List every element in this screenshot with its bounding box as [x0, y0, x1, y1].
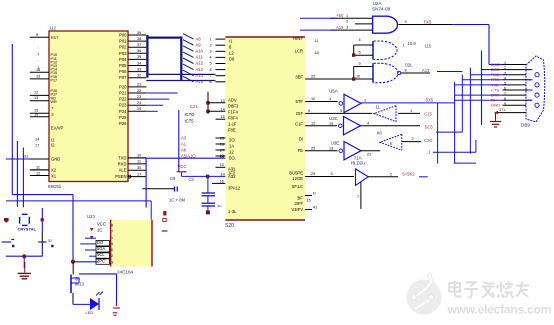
svg-text:A6: A6: [181, 147, 187, 152]
svg-text:RST: RST: [51, 36, 59, 40]
svg-text:11: 11: [315, 39, 319, 43]
IC U1 PSEN bubble: [128, 175, 131, 178]
wire left v4: [22, 148, 24, 208]
DB9 gnd row: [496, 112, 527, 114]
svg-text:P24: P24: [119, 109, 127, 114]
svg-text:17: 17: [35, 144, 39, 148]
svg-text:8: 8: [504, 97, 506, 101]
svg-text:1: 1: [210, 37, 212, 41]
component R1 lead: [162, 230, 168, 232]
svg-text:5+5K2: 5+5K2: [402, 171, 415, 176]
svg-text:P02: P02: [119, 45, 127, 50]
svg-text:U2A: U2A: [373, 1, 383, 6]
svg-text:10: 10: [356, 75, 360, 79]
junction dot g2: [352, 77, 355, 80]
svg-text:32: 32: [137, 74, 141, 78]
svg-text:A3: A3: [181, 135, 187, 140]
bus entry diagonals: [183, 34, 194, 40]
svg-text:U23: U23: [87, 214, 96, 219]
svg-text:4: 4: [210, 56, 212, 60]
LED D1: [90, 298, 99, 310]
buffer U3B: [374, 106, 396, 122]
svg-text:Q1: Q1: [75, 276, 81, 281]
svg-text:15: 15: [307, 199, 311, 203]
svg-text:U5A: U5A: [329, 89, 338, 94]
svg-text:5: 5: [340, 109, 342, 113]
svg-text:VCC: VCC: [178, 164, 187, 169]
svg-text:FE: FE: [298, 148, 304, 153]
svg-text:DI: DI: [299, 137, 303, 142]
svg-text:X1: X1: [51, 173, 57, 178]
svg-text:X2: X2: [51, 168, 57, 173]
svg-text:12OE: 12OE: [292, 176, 303, 181]
svg-text:A14: A14: [196, 73, 204, 78]
svg-text:34: 34: [137, 61, 141, 65]
svg-text:E: E: [390, 142, 393, 146]
wire db9 feed6: [455, 94, 503, 96]
wire left row169: [30, 169, 49, 171]
wire harness bottoms: [454, 162, 476, 164]
gate U2A output wire: [399, 24, 453, 26]
junction dot Q: [71, 260, 75, 264]
svg-text:19: 19: [36, 75, 40, 79]
IC U3 border left: [110, 220, 112, 267]
wire v x151: [150, 201, 152, 220]
svg-text:24C164: 24C164: [117, 270, 134, 275]
svg-text:A15: A15: [196, 79, 204, 84]
svg-text:3: 3: [346, 26, 348, 30]
wire P06 direct: [146, 73, 215, 75]
svg-text:13: 13: [220, 154, 224, 158]
wire mid vertical: [178, 110, 180, 172]
svg-text:HLD2U: HLD2U: [351, 161, 365, 166]
svg-text:43: 43: [315, 51, 319, 55]
IC2 stub row167: [216, 166, 226, 168]
svg-text:10: 10: [311, 97, 315, 101]
svg-text:2: 2: [412, 137, 414, 141]
junction dot rail: [22, 254, 26, 258]
capacitor C6 lead: [142, 188, 174, 190]
svg-text:33: 33: [137, 67, 141, 71]
svg-text:37: 37: [137, 43, 141, 47]
wire db9 feed3: [470, 74, 502, 76]
wire left v2: [11, 44, 13, 195]
svg-text:41: 41: [313, 206, 317, 210]
wire xtal v top: [41, 208, 43, 233]
wire db9 feed2: [482, 69, 503, 71]
crystal Y1 top plate: [22, 213, 28, 215]
svg-text:5X5: 5X5: [426, 98, 434, 103]
svg-text::: :: [38, 59, 39, 63]
svg-text:29: 29: [311, 172, 315, 176]
svg-text:13: 13: [221, 99, 225, 103]
svg-text:L: L: [403, 43, 406, 48]
svg-text:10: 10: [137, 154, 141, 158]
svg-text:14: 14: [35, 138, 39, 142]
ground DB9: [495, 113, 497, 121]
svg-text:30: 30: [48, 239, 52, 243]
junction dot VCC: [206, 175, 209, 178]
svg-text:3: 3: [504, 71, 506, 75]
VCC arrows: [90, 228, 94, 231]
buffer U4 out: [368, 176, 398, 178]
svg-text:35: 35: [137, 55, 141, 59]
wire VCC to IC2: [182, 175, 226, 177]
IC2 stub row183: [212, 182, 225, 184]
connector DB9: [526, 56, 545, 122]
svg-text:U2: U2: [50, 26, 56, 31]
svg-text:U3E: U3E: [331, 141, 340, 146]
svg-text:5F.1C: 5F.1C: [292, 184, 303, 189]
svg-text:RXD: RXD: [118, 161, 127, 166]
svg-text:LCR: LCR: [295, 49, 303, 54]
svg-text:21: 21: [367, 153, 371, 157]
svg-text:P00: P00: [119, 33, 127, 38]
svg-text:C6: C6: [170, 176, 176, 181]
svg-text:SN74-08: SN74-08: [372, 7, 391, 12]
svg-text:F8E: F8E: [228, 128, 236, 133]
svg-text:22: 22: [137, 89, 141, 93]
svg-text:P01: P01: [119, 39, 127, 44]
svg-text:5TL: 5TL: [499, 107, 507, 112]
svg-text:23: 23: [137, 95, 141, 99]
buffer U3D: [380, 134, 402, 150]
svg-text:C3: C3: [188, 177, 194, 182]
IC U2 body: [225, 37, 305, 220]
svg-text:89C51: 89C51: [48, 184, 62, 189]
wire R pullup: [79, 273, 117, 275]
wire A8 stub: [146, 92, 177, 94]
svg-text:5: 5: [504, 82, 506, 86]
svg-text:5TF: 5TF: [296, 99, 304, 104]
svg-text:12: 12: [229, 150, 234, 155]
svg-text:6: 6: [504, 87, 506, 91]
svg-text:14: 14: [221, 172, 225, 176]
wire A11 stub: [146, 110, 157, 112]
svg-text:3IF: 3IF: [297, 196, 303, 201]
junction dot g1: [352, 53, 355, 56]
buffer U3B in wire: [305, 112, 372, 114]
svg-text:A9: A9: [196, 42, 202, 47]
AND gate U2C arc: [374, 63, 398, 82]
svg-text:2: 2: [390, 172, 392, 176]
wire Q base: [73, 261, 98, 263]
svg-text:C15: C15: [424, 111, 432, 116]
wire harness v0: [437, 103, 439, 164]
svg-text:11: 11: [376, 105, 381, 110]
buffer U3E out: [361, 150, 380, 152]
IC U1 right bottom stubs: [128, 157, 146, 159]
capacitor C2: [38, 241, 46, 243]
wire v x146: [145, 158, 147, 207]
svg-text:11: 11: [36, 166, 40, 170]
gate U2A input wires blue: [300, 17, 336, 19]
svg-text:F8F4: F8F4: [228, 116, 238, 121]
IC U1 right pin stubs P2: [128, 86, 146, 88]
IC2 stub mid2: [208, 110, 225, 112]
component R1 body: [163, 211, 166, 215]
svg-text:F1F4: F1F4: [228, 110, 238, 115]
svg-text:31: 31: [24, 155, 28, 159]
buffer U3E: [339, 149, 343, 153]
svg-text:1: 1: [38, 66, 40, 70]
wire db9 feed5: [455, 84, 503, 86]
IC U1 right pin stubs P0: [128, 34, 146, 36]
gate U2C in wire: [305, 78, 373, 80]
svg-text:02L: 02L: [405, 62, 413, 67]
VCC bar: [177, 171, 187, 173]
gate U2A out blue: [452, 24, 489, 26]
wire db9 feed4: [462, 79, 502, 81]
svg-text:EA/VP: EA/VP: [51, 126, 64, 131]
svg-text:A13: A13: [422, 68, 430, 73]
svg-text:16: 16: [220, 179, 224, 183]
IC2 stub mid1: [208, 102, 225, 104]
svg-text:7: 7: [504, 92, 506, 96]
svg-text:1A: 1A: [229, 144, 234, 149]
wire A10 stub: [146, 104, 163, 106]
svg-text:5: 5: [210, 62, 212, 66]
svg-text:36: 36: [137, 49, 141, 53]
buffer U3E in: [305, 150, 338, 152]
svg-text:3: 3: [405, 20, 407, 24]
svg-text:A11: A11: [196, 55, 204, 60]
buffer U3A out wire: [361, 102, 455, 104]
svg-text:ALE: ALE: [119, 168, 127, 173]
IC U1 89C51 body: [49, 31, 128, 182]
svg-text:D8: D8: [229, 57, 235, 62]
net marker diamond: [4, 218, 9, 223]
svg-text:12: 12: [311, 121, 315, 125]
svg-text:1: 1: [346, 14, 348, 18]
AND gate U2B arc: [374, 41, 397, 60]
buffer U3A in: [305, 101, 338, 103]
svg-text:BU5PE: BU5PE: [289, 171, 303, 176]
buffer U4 out blue: [419, 176, 428, 178]
svg-text:9: 9: [36, 33, 38, 37]
svg-text:5: 5: [111, 242, 113, 246]
svg-text:25: 25: [311, 146, 315, 150]
AND gate U2B left edge: [372, 41, 374, 60]
wire xtal v bot: [41, 249, 43, 256]
capacitor C1: [2, 241, 12, 243]
svg-text:P07: P07: [119, 75, 127, 80]
IC2 lowleft stubs: [216, 137, 226, 139]
svg-text:A15: A15: [336, 25, 344, 30]
svg-text:DB9: DB9: [521, 123, 530, 128]
svg-text:RINT: RINT: [293, 36, 303, 41]
svg-text:V3IFV: V3IFV: [291, 207, 303, 212]
svg-text:P23: P23: [119, 103, 127, 108]
AND gate U2A: [373, 16, 398, 33]
svg-text:ADV: ADV: [228, 98, 237, 103]
bus horizontal top: [146, 36, 182, 38]
LED wires: [73, 303, 90, 305]
svg-text:3PA12: 3PA12: [228, 186, 241, 191]
svg-text:P17: P17: [51, 78, 58, 82]
wire H2: [6, 200, 151, 202]
svg-text:LED: LED: [86, 310, 94, 315]
gate U2B in vert: [353, 45, 355, 55]
svg-text:1C: 1C: [97, 228, 102, 233]
gate U2C in vert: [353, 67, 355, 80]
svg-text:11: 11: [137, 160, 141, 164]
buffer U4 en pin: [360, 182, 362, 209]
svg-text:A12: A12: [196, 61, 204, 66]
svg-text:ICT5: ICT5: [185, 118, 195, 123]
svg-text:www.elecfans.com: www.elecfans.com: [447, 303, 552, 317]
svg-text:115: 115: [425, 44, 432, 49]
svg-text:L2: L2: [229, 51, 234, 56]
svg-text:7: 7: [111, 230, 113, 234]
svg-text:3EF: 3EF: [295, 74, 303, 79]
svg-text:2: 2: [346, 20, 348, 24]
AND gate U2C left edge: [372, 63, 374, 82]
svg-text:DIF: DIF: [296, 111, 303, 116]
svg-text:P20: P20: [119, 84, 127, 89]
svg-text:1: 1: [504, 61, 506, 65]
svg-text:24: 24: [137, 101, 141, 105]
IC U2 border bottom: [225, 219, 305, 221]
svg-text:8: 8: [405, 69, 407, 73]
svg-text:P22: P22: [119, 97, 127, 102]
IC U2 border top: [225, 36, 305, 38]
svg-text:P26: P26: [119, 121, 127, 126]
wire harness v1: [488, 25, 490, 65]
svg-text:6: 6: [210, 68, 212, 72]
wire harness h2: [437, 71, 462, 73]
wire RST row: [6, 158, 30, 160]
svg-text:30: 30: [137, 166, 141, 170]
svg-text:25: 25: [137, 107, 141, 111]
IC U3 body: [110, 220, 153, 267]
svg-text:10.8: 10.8: [408, 41, 417, 46]
watermark logo: [406, 279, 441, 314]
svg-text:16: 16: [34, 113, 38, 117]
svg-text:15: 15: [220, 163, 224, 167]
svg-text:A1: A1: [181, 141, 187, 146]
svg-text:17: 17: [137, 172, 141, 176]
svg-text:1: 1: [111, 236, 113, 240]
svg-text:C1F: C1F: [295, 121, 303, 126]
svg-text:A10: A10: [196, 49, 204, 54]
svg-text:3: 3: [111, 260, 113, 264]
svg-text:1: 1: [329, 97, 331, 101]
crystal Y1 body: [19, 217, 21, 224]
svg-text:P25: P25: [119, 115, 127, 120]
wire TXD row: [128, 157, 146, 159]
wire A9 stub: [146, 98, 169, 100]
svg-text:D: D: [313, 192, 316, 196]
svg-text:A32: A32: [228, 174, 236, 179]
svg-text:1a: 1a: [329, 121, 334, 125]
svg-text:GND: GND: [51, 156, 60, 161]
svg-text:..1: ..1: [426, 150, 431, 155]
svg-text::: :: [38, 45, 39, 49]
svg-text:A13: A13: [196, 67, 204, 72]
capacitor C5 gnd dot: [206, 210, 210, 214]
svg-text:14: 14: [221, 107, 225, 111]
transistor Q1: [72, 262, 74, 274]
svg-text:21: 21: [137, 83, 141, 87]
junction dot mid1: [206, 101, 209, 104]
buffer U4 in wire: [305, 176, 354, 178]
svg-text:3: 3: [210, 50, 212, 54]
svg-text:TXD: TXD: [118, 155, 126, 160]
svg-text:2: 2: [111, 254, 113, 258]
capacitor C6 plates: [174, 187, 176, 192]
svg-text:8: 8: [111, 223, 113, 227]
wire TXD blue: [146, 157, 225, 159]
wire db9 feed7: [455, 99, 503, 101]
svg-text:WR: WR: [51, 100, 57, 104]
wire harness v2: [481, 51, 483, 125]
svg-text:K0: K0: [377, 130, 383, 135]
bus vertical right: [180, 36, 182, 80]
IC U3 boxed pins: [96, 241, 110, 246]
svg-text:5C5: 5C5: [425, 125, 433, 130]
svg-text:1-3L: 1-3L: [228, 209, 237, 214]
svg-text:VCC: VCC: [97, 221, 106, 226]
svg-text:U3C: U3C: [329, 116, 338, 121]
wire xtal v mid: [41, 233, 43, 249]
svg-text:2O: 2O: [229, 138, 235, 143]
svg-text:9: 9: [308, 109, 310, 113]
label STL arrow: [494, 111, 498, 115]
buffer U3A: [339, 102, 343, 106]
buffer U3C in: [305, 125, 337, 127]
svg-text:C21: C21: [190, 104, 198, 109]
svg-text:1C + 0M: 1C + 0M: [169, 198, 185, 203]
svg-text:5: 5: [359, 50, 361, 54]
svg-text:P04: P04: [119, 57, 127, 62]
buffer U3D out: [402, 141, 421, 143]
gate U2C bubble: [398, 71, 401, 74]
svg-text:4: 4: [367, 121, 369, 125]
svg-text:13: 13: [329, 146, 333, 150]
svg-text:5O.: 5O.: [229, 156, 236, 161]
IC U3 border right: [151, 220, 153, 267]
wire P07 direct: [146, 80, 215, 82]
svg-text:1-1F: 1-1F: [228, 122, 237, 127]
component R1 mark: [163, 218, 166, 221]
svg-text:1: 1: [364, 99, 366, 103]
svg-text:TX5: TX5: [424, 19, 432, 24]
svg-text:ICTO: ICTO: [185, 112, 196, 117]
gate U2C output: [401, 72, 430, 74]
junction square xtal: [41, 218, 44, 221]
IC U1 left pin stubs: [30, 36, 49, 38]
svg-text:P03: P03: [119, 51, 127, 56]
buffer U4: [356, 169, 369, 185]
svg-text:15: 15: [221, 115, 225, 119]
svg-text:1u: 1u: [217, 203, 221, 208]
crystal Y1 bottom plate: [22, 224, 28, 226]
svg-text:7: 7: [357, 195, 359, 199]
junction dot mid2: [206, 110, 209, 113]
svg-text:4: 4: [504, 76, 506, 80]
wire harness v4: [461, 75, 463, 133]
svg-text:P05: P05: [119, 63, 127, 68]
svg-text:9013: 9013: [75, 282, 85, 287]
buffer U3C: [339, 124, 343, 128]
svg-text:38: 38: [137, 37, 141, 41]
svg-text:2: 2: [504, 66, 506, 70]
svg-text:1: 1: [38, 52, 40, 56]
transistor Q1 lead: [72, 293, 74, 304]
bus vertical left: [146, 35, 148, 78]
svg-text:CRYSTAL: CRYSTAL: [18, 227, 37, 232]
